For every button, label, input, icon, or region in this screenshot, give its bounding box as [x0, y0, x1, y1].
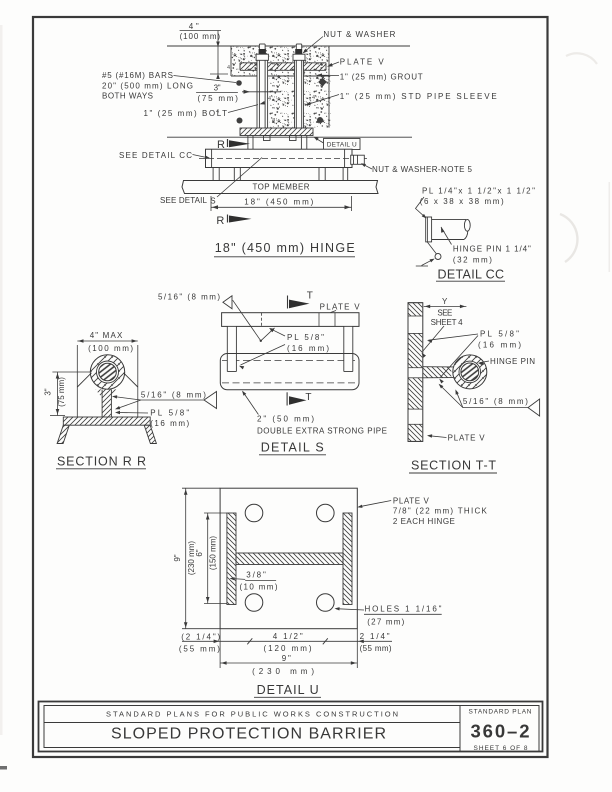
ds pipe	[220, 354, 359, 390]
svg-text:R: R	[216, 215, 224, 227]
svg-text:2 EACH HINGE: 2 EACH HINGE	[393, 517, 455, 526]
du hole top left	[245, 504, 263, 522]
detail cc leader plate	[416, 197, 426, 218]
ds weld diagonal	[233, 300, 261, 341]
title block outer box	[39, 702, 543, 752]
leader bolt	[228, 105, 258, 113]
svg-text:3/8": 3/8"	[246, 571, 266, 580]
svg-text:1" (25 mm) BOLT: 1" (25 mm) BOLT	[144, 109, 228, 118]
leader see detail cc	[193, 155, 210, 159]
leader nut and washer	[304, 37, 324, 53]
svg-text:#5 (#16M) BARS: #5 (#16M) BARS	[102, 71, 173, 80]
svg-text:4: 4	[272, 118, 275, 124]
svg-text:(150 mm): (150 mm)	[209, 536, 218, 571]
du left bar hatched	[227, 513, 236, 605]
svg-text:(10 mm): (10 mm)	[240, 583, 278, 592]
ds weld flag left	[223, 296, 232, 309]
tt plate hatch segments	[409, 303, 423, 316]
ds pipe top edge redraw	[227, 353, 353, 355]
top surface line	[167, 45, 410, 47]
top member bar	[182, 181, 378, 194]
svg-text:4: 4	[227, 65, 230, 71]
svg-text:5/16" (8 mm): 5/16" (8 mm)	[141, 391, 206, 400]
svg-text:HINGE PIN: HINGE PIN	[490, 357, 535, 366]
svg-text:SECTION T-T: SECTION T-T	[411, 459, 496, 473]
detail cc hinge pin cylinder	[432, 218, 466, 220]
svg-text:(75 mm): (75 mm)	[198, 94, 239, 103]
svg-text:Y: Y	[442, 297, 448, 306]
page border frame	[33, 17, 548, 757]
svg-text:3": 3"	[214, 84, 221, 93]
du bottom dims	[219, 629, 221, 668]
svg-text:SLOPED PROTECTION BARRIER: SLOPED PROTECTION BARRIER	[111, 725, 386, 742]
svg-text:(230 mm): (230 mm)	[252, 667, 314, 676]
blockout right edge	[328, 46, 330, 128]
title block inner left box	[44, 706, 460, 748]
rr base band hatched	[63, 417, 150, 425]
svg-text:20" (500 mm) LONG: 20" (500 mm) LONG	[102, 82, 193, 91]
right connector tab	[300, 136, 302, 150]
svg-text:(230 mm): (230 mm)	[187, 541, 196, 576]
svg-text:360–2: 360–2	[471, 721, 530, 742]
svg-text:9": 9"	[173, 554, 182, 561]
title block right box	[460, 706, 539, 752]
svg-text:DETAIL U: DETAIL U	[327, 142, 357, 149]
svg-text:(100 mm): (100 mm)	[88, 344, 133, 353]
detail cc plate	[426, 217, 432, 242]
du hole bottom left	[245, 594, 263, 612]
svg-text:DETAIL CC: DETAIL CC	[438, 268, 505, 282]
du hole bottom right	[317, 594, 335, 612]
ds pl leaders	[271, 329, 286, 336]
svg-text:HOLES 1 1/16": HOLES 1 1/16"	[365, 605, 442, 614]
leader #5 bars	[174, 76, 237, 83]
rebar dot A	[236, 80, 242, 86]
rr hinge ring hatched	[90, 355, 124, 389]
svg-text:PLATE V: PLATE V	[340, 58, 385, 67]
background line below plate	[167, 136, 412, 138]
svg-text:(100 mm): (100 mm)	[180, 32, 221, 41]
embedded plate hatch band	[240, 63, 326, 71]
leader plate v top	[329, 62, 340, 66]
tt ring hatched	[453, 355, 487, 389]
rr hinge pin	[99, 363, 117, 381]
leader note 5	[362, 164, 372, 169]
du holes leader	[336, 609, 364, 610]
rebar diamond	[318, 78, 327, 87]
svg-text:PL 1/4"x 1 1/2"x 1 1/2": PL 1/4"x 1 1/2"x 1 1/2"	[422, 187, 535, 196]
title block divider	[44, 722, 460, 724]
leader detail s	[217, 158, 262, 198]
svg-text:BOTH WAYS: BOTH WAYS	[102, 91, 153, 100]
svg-text:SEE DETAIL: SEE DETAIL	[160, 196, 208, 205]
svg-text:DETAIL U: DETAIL U	[257, 683, 319, 697]
svg-text:HINGE PIN 1 1/4": HINGE PIN 1 1/4"	[453, 245, 531, 254]
pipe centerline dashed	[199, 157, 368, 159]
svg-text:4: 4	[312, 95, 315, 101]
svg-text:(120 mm): (120 mm)	[264, 644, 312, 653]
svg-text:(32 mm): (32 mm)	[453, 256, 492, 265]
anchor bolt right	[295, 60, 304, 128]
tt pl leaders	[429, 334, 479, 340]
svg-text:TOP MEMBER: TOP MEMBER	[253, 183, 310, 192]
rr weld wedges	[96, 389, 103, 398]
svg-text:SEE: SEE	[437, 308, 452, 317]
svg-text:PLATE V: PLATE V	[393, 497, 430, 506]
svg-text:2" (50 mm): 2" (50 mm)	[257, 415, 314, 424]
left bolt lower nut	[264, 136, 271, 141]
tt weld leaders	[440, 385, 463, 408]
left connector tab	[247, 136, 249, 150]
svg-text:(16 mm): (16 mm)	[150, 419, 189, 428]
ds plate v leader	[331, 311, 337, 313]
hinge legs	[213, 168, 219, 181]
svg-text:(16 mm): (16 mm)	[287, 344, 329, 353]
rr weld leaders	[114, 397, 141, 401]
concrete blockout stipple	[231, 46, 329, 76]
hinge top plate hatched	[240, 128, 313, 136]
svg-text:(27 mm): (27 mm)	[367, 618, 404, 627]
svg-text:T: T	[307, 291, 313, 302]
svg-text:(55 mm): (55 mm)	[179, 644, 220, 653]
svg-text:(16 mm): (16 mm)	[478, 340, 521, 349]
tt plate v leader	[429, 436, 447, 438]
ds left leg	[227, 327, 236, 372]
rebar dot B	[237, 118, 243, 124]
du right bar hatched	[343, 513, 352, 605]
lower concrete column stipple	[267, 76, 331, 128]
tt hinge pin leader	[480, 361, 490, 363]
rr center column hatched	[102, 390, 111, 418]
du dim 9 inch vertical	[182, 487, 220, 489]
svg-text:3": 3"	[44, 388, 53, 395]
rebar dot C	[317, 117, 323, 123]
svg-text:PLATE V: PLATE V	[448, 434, 486, 443]
svg-text:SEE DETAIL CC: SEE DETAIL CC	[119, 151, 192, 160]
svg-text:1" (25 mm) STD PIPE SLEEVE: 1" (25 mm) STD PIPE SLEEVE	[340, 92, 497, 101]
dimension 18 inch	[210, 196, 212, 211]
du 3/8 leader	[231, 578, 245, 581]
detail u reference box	[324, 139, 361, 150]
svg-text:T: T	[305, 392, 311, 403]
svg-text:SECTION R R: SECTION R R	[57, 455, 146, 469]
tt tall plate outline	[408, 303, 423, 442]
rr right leg	[144, 425, 156, 443]
svg-text:PLATE V: PLATE V	[320, 303, 361, 312]
blockout left edge	[230, 46, 232, 76]
pipe end nut right	[351, 155, 365, 164]
ds pipe bore dashed	[222, 359, 357, 361]
du plate outline	[220, 488, 357, 629]
svg-text:4: 4	[268, 96, 271, 102]
leader detail u box	[315, 138, 324, 144]
leader grout	[318, 74, 339, 76]
du plate v leader	[359, 501, 391, 507]
svg-text:DOUBLE EXTRA STRONG PIPE: DOUBLE EXTRA STRONG PIPE	[257, 427, 387, 436]
scan artifacts	[0, 25, 3, 735]
tt see sheet leader	[423, 326, 445, 352]
svg-text:6": 6"	[195, 549, 204, 556]
svg-text:4" MAX: 4" MAX	[90, 331, 123, 340]
blockout bottom edge	[231, 75, 329, 77]
svg-text:5/16" (8 mm): 5/16" (8 mm)	[463, 397, 528, 406]
svg-text:STANDARD PLAN: STANDARD PLAN	[469, 709, 532, 716]
rr body outline	[77, 373, 91, 387]
svg-text:5/16" (8 mm): 5/16" (8 mm)	[158, 293, 220, 302]
anchor bolt left	[257, 60, 268, 128]
du cross bar hatched	[236, 553, 343, 565]
detail cc pin end circle	[427, 242, 436, 254]
svg-text:STANDARD PLANS FOR PUBLIC WORK: STANDARD PLANS FOR PUBLIC WORKS CONSTRUC…	[106, 709, 398, 718]
ds pipe label leader	[243, 392, 259, 415]
svg-text:(55 mm): (55 mm)	[360, 644, 392, 653]
tt arm hatched	[423, 367, 452, 378]
du dim 6 inch vertical	[204, 512, 227, 514]
svg-text:18" (450 mm): 18" (450 mm)	[244, 198, 313, 207]
ds right leg	[344, 327, 353, 372]
svg-text:SHEET 4: SHEET 4	[431, 318, 464, 327]
rr left leg	[57, 425, 69, 443]
rr pl leader	[117, 412, 149, 415]
detail cc pin leader	[441, 227, 445, 233]
svg-text:SHEET 6 OF 8: SHEET 6 OF 8	[474, 745, 528, 752]
du hole top right	[317, 504, 335, 522]
svg-text:NUT & WASHER: NUT & WASHER	[323, 30, 395, 39]
right bolt lower nut	[290, 136, 297, 141]
rr left extension	[76, 345, 78, 417]
rr right extension	[137, 345, 139, 417]
svg-text:1" (25 mm) GROUT: 1" (25 mm) GROUT	[340, 73, 423, 82]
hinge pipe body	[206, 149, 353, 167]
leader pipe sleeve	[307, 95, 340, 105]
tt hinge pin	[461, 363, 479, 381]
ds top plate	[222, 313, 359, 327]
detail cc arrow at pin circle	[416, 265, 428, 267]
svg-text:NUT & WASHER-NOTE 5: NUT & WASHER-NOTE 5	[372, 165, 473, 174]
svg-text:(75 mm): (75 mm)	[57, 377, 66, 407]
